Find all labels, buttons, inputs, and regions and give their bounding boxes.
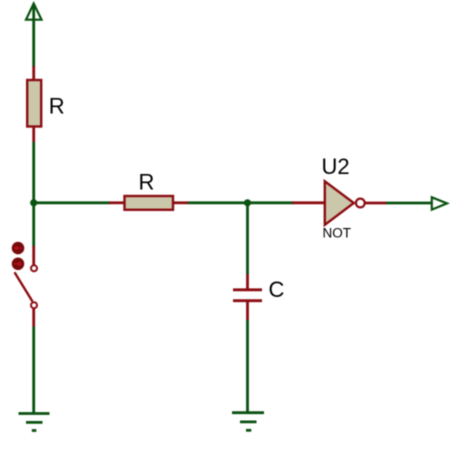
- capacitor C bottom plate: [233, 299, 262, 302]
- resistor R (horizontal) body: [125, 196, 174, 210]
- wire: node A down to switch: [32, 203, 35, 247]
- wire: node A to horizontal resistor R: [34, 201, 110, 204]
- resistor R (vertical) top pin: [32, 66, 35, 81]
- resistor R (vertical) bottom pin: [32, 126, 35, 143]
- wire: capacitor C to ground (middle): [246, 320, 249, 413]
- capacitor C bottom pin: [246, 302, 249, 321]
- wire: gate output to output terminal arrow: [386, 202, 433, 205]
- capacitor C top plate: [233, 288, 262, 291]
- NOT gate U2 type label: [323, 226, 352, 241]
- svg-text:NOT: NOT: [323, 226, 352, 241]
- switch toggle button (down, right-arrow): [12, 258, 24, 270]
- capacitor C top pin: [246, 274, 249, 289]
- NOT gate U2 triangle body: [325, 181, 354, 225]
- capacitor C value label: [269, 277, 285, 302]
- switch bottom pin: [32, 309, 35, 328]
- wire: resistor R bottom to node A: [32, 142, 35, 204]
- resistor R (horizontal) value label: [139, 170, 155, 195]
- resistor R (horizontal) right pin: [173, 201, 189, 204]
- wire: switch to ground (left): [32, 327, 35, 414]
- NOT gate U2 output pin: [365, 202, 387, 205]
- NOT gate U2 reference label: [322, 154, 350, 179]
- svg-text:R: R: [49, 94, 65, 119]
- resistor R (horizontal) left pin: [109, 201, 125, 204]
- switch bottom terminal circle: [31, 302, 37, 308]
- wire: node B down to capacitor C: [246, 203, 249, 275]
- switch top terminal circle: [31, 265, 37, 271]
- resistor R (vertical) body: [27, 80, 41, 127]
- svg-text:C: C: [269, 277, 285, 302]
- power terminal arrow (top): [26, 4, 42, 20]
- svg-text:U2: U2: [322, 154, 350, 179]
- node A (junction of R, switch, horizontal wire): [30, 199, 37, 206]
- wire: horizontal resistor to node B: [188, 201, 248, 204]
- output terminal arrow (right): [432, 197, 447, 209]
- wire: power arrow to resistor R top pin: [32, 6, 35, 67]
- switch lever: [15, 272, 33, 301]
- ground symbol (middle, under capacitor): [232, 413, 264, 431]
- NOT gate U2 inversion bubble: [356, 199, 365, 208]
- switch toggle button (up, left-arrow): [12, 242, 24, 254]
- resistor R (vertical) value label: [49, 94, 65, 119]
- NOT gate U2 input pin: [292, 201, 325, 204]
- ground symbol (left, under switch): [19, 414, 50, 431]
- svg-text:R: R: [139, 170, 155, 195]
- node B (junction of capacitor C and gate input): [244, 199, 251, 206]
- wire: node B to NOT gate input pin: [248, 201, 294, 204]
- switch top pin: [32, 246, 35, 265]
